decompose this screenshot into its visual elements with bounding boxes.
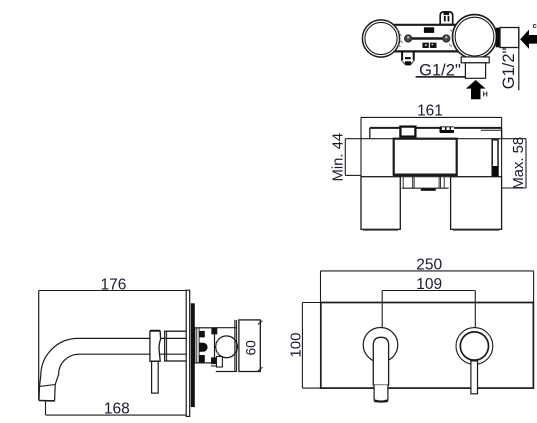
svg-text:Max. 58: Max. 58 — [511, 137, 527, 190]
svg-text:168: 168 — [104, 401, 130, 418]
svg-text:c: c — [533, 21, 537, 30]
svg-text:G1/2": G1/2" — [500, 47, 518, 89]
svg-text:176: 176 — [100, 276, 126, 293]
svg-text:100: 100 — [287, 333, 304, 358]
svg-text:H: H — [483, 92, 488, 99]
svg-text:60: 60 — [244, 340, 259, 356]
svg-text:250: 250 — [416, 257, 442, 274]
svg-text:G1/2": G1/2" — [419, 62, 461, 80]
svg-text:109: 109 — [416, 276, 442, 293]
svg-text:Min. 44: Min. 44 — [331, 133, 347, 182]
svg-text:161: 161 — [417, 103, 443, 120]
